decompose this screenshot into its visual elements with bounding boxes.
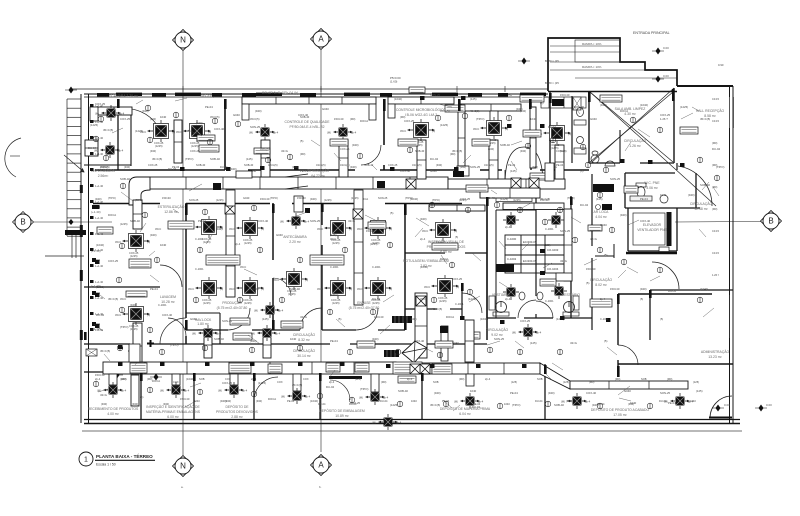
svg-text:COX-25: COX-25 [452,277,463,281]
svg-text:SOB-40: SOB-40 [398,389,408,393]
bottom partition x422 [421,372,423,419]
svg-text:43×G(5): 43×G(5) [340,163,350,167]
outlets left wall [92,205,100,209]
svg-text:(1225): (1225) [372,301,380,305]
bench row room6 [541,97,586,108]
level diamonds bottom right [712,405,724,412]
svg-text:C-1001: C-1001 [330,265,339,269]
door arc circ [652,262,679,289]
svg-text:(125): (125) [696,389,703,393]
svg-text:(M): (M) [359,396,363,400]
svg-text:0.00: 0.00 [724,403,730,407]
svg-text:45×C: 45×C [229,287,235,291]
equipment label boxes [97,87,698,383]
svg-text:2p-4: 2p-4 [420,237,426,241]
svg-text:SON-25: SON-25 [560,229,571,233]
duct transition lines [285,174,308,189]
svg-text:(M0): (M0) [459,377,464,381]
svg-text:SOB: SOB [433,380,439,384]
svg-text:(M0): (M0) [712,163,717,167]
label box c5000 [468,332,480,339]
leader lines [94,98,719,411]
svg-text:(M): (M) [281,395,285,399]
havlock room [186,312,220,314]
diffuser S12 [561,393,591,409]
svg-text:43×G: 43×G [570,341,577,345]
svg-text:COX: COX [173,380,179,384]
svg-text:(1225): (1225) [244,301,252,305]
svg-text:(M0): (M0) [350,117,355,121]
svg-text:2.88 m²: 2.88 m² [231,415,243,419]
svg-text:I B-06 h/G2-4G l-4/L2: I B-06 h/G2-4G l-4/L2 [405,113,438,117]
level diamonds corridorB [111,372,123,379]
svg-text:150×40: 150×40 [560,93,570,97]
duct envase vertical [354,210,363,305]
svg-text:45×C: 45×C [400,129,406,133]
entrance step tick [518,58,530,65]
register cross [147,340,154,347]
svg-text:0.00: 0.00 [663,46,669,50]
svg-text:SON-25: SON-25 [660,391,671,395]
diffuser S5 [280,213,310,229]
svg-text:RECEBIMENTO DE PRODUTOS: RECEBIMENTO DE PRODUTOS [88,407,139,411]
svg-text:(M0): (M0) [712,207,717,211]
svg-text:150×40: 150×40 [180,397,190,401]
svg-text:COX-40: COX-40 [162,313,173,317]
door arc corridor1 a [363,174,385,196]
svg-text:DU-04: DU-04 [597,402,605,406]
LAV box corridorA [233,333,252,340]
duct branch x470 [465,320,474,362]
toilet cluster mid (around 500-560, 290-312) [493,292,579,316]
bottom partition x194 [193,372,195,419]
svg-text:SON-25: SON-25 [610,177,621,181]
svg-text:43×G: 43×G [100,393,107,397]
svg-text:PE-04: PE-04 [640,197,648,201]
svg-text:45×C: 45×C [420,297,426,301]
svg-text:(TIPO): (TIPO) [135,198,143,202]
est door arc [160,318,186,344]
svg-text:C-1001: C-1001 [600,317,609,321]
svg-text:2p-4: 2p-4 [184,389,190,393]
duct drop CQ2 [339,140,348,177]
diffuser D18 [424,275,459,303]
svg-text:(1225): (1225) [244,241,252,245]
svg-text:SOB: SOB [641,377,647,381]
right column marks [712,97,719,277]
wall top-band x550 [549,91,551,163]
svg-text:(1225): (1225) [135,129,143,133]
svg-text:1+1.40: 1+1.40 [95,296,104,300]
svg-text:DOCA: DOCA [268,397,276,401]
svg-text:45×C: 45×C [317,287,323,291]
svg-text:(M): (M) [251,332,255,336]
diffuser S4 [94,142,124,158]
svg-text:6.90 m²: 6.90 m² [440,250,452,254]
svg-text:(1225): (1225) [324,198,332,202]
door marker box left [86,349,97,356]
est/lav divider wall [84,286,160,288]
svg-text:Escala 1 / 50: Escala 1 / 50 [96,463,116,467]
svg-text:(1225): (1225) [439,299,447,303]
register producao top [225,204,235,214]
section marker B right [675,221,762,224]
diffuser D7 [229,217,264,245]
svg-text:(M): (M) [160,389,164,393]
svg-text:(TIPO): (TIPO) [476,117,484,121]
svg-text:(5): (5) [604,339,607,343]
room5 drop duct [490,111,498,123]
duct drop room5 [489,140,498,179]
svg-text:64.72 m²: 64.72 m² [311,174,325,178]
duct stubs to bottom diffusers [109,374,117,385]
svg-text:1040: 1040 [208,287,215,291]
svg-text:G040: G040 [600,223,607,227]
svg-text:1040: 1040 [290,337,297,341]
svg-text:(M0): (M0) [450,152,455,156]
top eave line [71,88,548,90]
diffuser S8 [218,382,248,398]
svg-text:(1225): (1225) [203,240,211,244]
svg-text:45×C: 45×C [473,127,479,131]
svg-text:HALL RECEPÇÃO: HALL RECEPÇÃO [696,108,725,113]
svg-text:1+1.40: 1+1.40 [95,232,104,236]
svg-text:1.26 f: 1.26 f [712,273,719,277]
door arc bottom right corner [710,396,732,418]
svg-text:DU-04: DU-04 [349,402,357,406]
sala limpa X brace [590,88,716,206]
svg-text:1+1.40: 1+1.40 [95,328,104,332]
svg-text:1+1.40: 1+1.40 [95,136,104,140]
svg-text:(940): (940) [548,391,555,395]
svg-text:(940): (940) [230,167,237,171]
svg-text:1040: 1040 [504,402,510,406]
svg-text:DU-04: DU-04 [659,399,667,403]
svg-text:(M0): (M0) [589,380,594,384]
svg-text:(5): (5) [338,317,341,321]
svg-text:2p-4: 2p-4 [119,112,125,116]
svg-text:1+1.40: 1+1.40 [95,104,104,108]
room2 top duct [96,107,132,115]
svg-text:ANTECÂMARA: ANTECÂMARA [283,235,307,239]
svg-text:(5): (5) [586,281,589,285]
sala limpa south wall [589,162,620,164]
svg-text:3.06 m²: 3.06 m² [646,186,658,190]
svg-text:(125): (125) [563,380,569,384]
svg-text:DOCA: DOCA [620,109,628,113]
lab small dark rects [540,249,545,253]
bottom partition x320 [319,372,321,419]
svg-text:1040: 1040 [530,117,537,121]
svg-text:2p-4: 2p-4 [216,332,222,336]
svg-text:(940): (940) [150,233,157,237]
svg-text:PE-04: PE-04 [205,105,213,109]
dark rect near top wall [552,99,564,106]
tiny circle tags [93,105,720,409]
svg-text:SON-25: SON-25 [494,337,505,341]
envase east wall x405 [404,203,406,330]
svg-text:45×C(5): 45×C(5) [432,307,442,311]
elevator room [628,208,677,251]
svg-text:ENVASE: ENVASE [357,301,371,305]
top leader texts [390,59,724,121]
svg-text:(5): (5) [660,317,663,321]
svg-text:COX-40: COX-40 [586,391,597,395]
svg-text:(940): (940) [132,402,138,406]
diffuser D1 [140,120,175,148]
svg-text:(125): (125) [530,341,537,345]
svg-text:45×C: 45×C [422,229,428,233]
diffuser S9 [281,388,311,404]
svg-text:2p-4: 2p-4 [273,131,279,135]
svg-text:b.: b. [319,485,322,489]
svg-text:DOCA: DOCA [108,213,116,217]
svg-text:PLANTA BAIXA - TÉRREO: PLANTA BAIXA - TÉRREO [96,452,153,459]
svg-text:G040: G040 [590,117,597,121]
svg-text:G040: G040 [243,196,250,200]
svg-text:(TIPO): (TIPO) [405,196,413,200]
svg-text:(1225): (1225) [288,292,296,296]
svg-text:C-1002: C-1002 [507,257,517,261]
diffuser S16 [512,324,542,340]
section marker B left [30,221,112,223]
svg-text:C-1001: C-1001 [545,227,554,231]
svg-text:SOB-40: SOB-40 [244,163,254,167]
svg-text:(940): (940) [250,339,257,343]
svg-text:(M0): (M0) [667,377,672,381]
CQ room top duct [242,97,376,104]
svg-text:COX-25: COX-25 [190,149,200,153]
cluster diffusers [503,212,519,228]
svg-text:SOB-40: SOB-40 [554,403,564,407]
wall top-band x530 [530,99,532,170]
svg-text:COX-25: COX-25 [340,147,350,151]
ground separator line [82,430,742,432]
svg-text:(1225): (1225) [370,242,378,246]
svg-text:(M): (M) [192,332,196,336]
svg-text:(940): (940) [150,149,156,153]
svg-text:(125): (125) [693,380,699,384]
svg-text:(TIPO): (TIPO) [512,403,520,407]
svg-text:C0.15: C0.15 [712,251,719,255]
svg-text:(TIPO): (TIPO) [270,196,278,200]
duct elbow left (turns south) [129,177,150,205]
svg-text:(125): (125) [510,169,517,173]
wall top-band x131 [130,108,132,166]
svg-text:(1225): (1225) [258,381,266,385]
svg-text:(M): (M) [249,131,253,135]
diffuser D9 [229,277,264,305]
svg-text:1+1.40: 1+1.40 [95,248,104,252]
svg-text:COX-25: COX-25 [520,319,531,323]
svg-text:N: N [180,462,186,471]
double door arch corridor1 [505,147,543,185]
door arc x462 [462,293,482,313]
door arc admin [652,262,679,290]
elevator shaft dark bar [667,212,672,246]
svg-text:DOCA: DOCA [668,289,676,293]
diffuser D2 [176,120,211,148]
level diamond entrance 1 [652,48,664,55]
svg-text:(M0): (M0) [121,377,126,381]
svg-text:1040: 1040 [660,193,667,197]
duct cluster right of corridor [480,188,540,198]
svg-text:SOB-40: SOB-40 [130,219,140,223]
svg-text:EC/200-05: EC/200-05 [523,259,537,263]
svg-text:45×C: 45×C [115,313,121,317]
svg-text:(1225): (1225) [680,105,688,109]
svg-text:2p-4: 2p-4 [505,225,511,229]
section line N [182,51,184,455]
svg-text:C-1001: C-1001 [195,237,204,241]
big duct 45 elbow [402,341,427,363]
svg-text:ESTERILIZAÇÃO: ESTERILIZAÇÃO [158,204,185,209]
svg-text:DU-04: DU-04 [712,147,721,151]
svg-text:2p-4: 2p-4 [275,332,281,336]
svg-text:150×40: 150×40 [260,197,270,201]
svg-text:(125): (125) [262,317,269,321]
svg-text:B: B [20,218,25,227]
svg-text:COX-40: COX-40 [640,219,651,223]
svg-text:MATÉRIA-PRIMA E EMBALAGENS: MATÉRIA-PRIMA E EMBALAGENS [146,409,201,414]
svg-text:1+1.40: 1+1.40 [95,216,104,220]
svg-text:(940): (940) [566,399,572,403]
svg-text:DU-04: DU-04 [580,203,589,207]
diffuser D6 [188,216,223,244]
below stairs landing [45,235,84,258]
svg-text:G040: G040 [322,107,329,111]
svg-text:6.00 m²: 6.00 m² [167,415,179,419]
svg-text:CIRCULAÇÃO: CIRCULAÇÃO [486,327,509,332]
svg-text:(1225): (1225) [96,285,104,289]
svg-text:DU-04: DU-04 [535,399,543,403]
wall x462 [461,283,463,318]
svg-text:0.90: 0.90 [718,63,724,67]
svg-text:1+1.40: 1+1.40 [95,184,104,188]
svg-text:45×C: 45×C [317,227,323,231]
svg-text:RAMPA i: 10%: RAMPA i: 10% [582,65,602,69]
section marker N bottom [173,456,194,477]
top-right wall [677,85,733,87]
svg-text:COX: COX [225,377,231,381]
svg-text:1+1.40: 1+1.40 [95,280,104,284]
rotulagem east wall x487 [486,196,488,340]
svg-text:2p-4: 2p-4 [407,377,413,381]
svg-text:(940): (940) [130,303,137,307]
svg-text:2p-4: 2p-4 [383,396,389,400]
svg-text:PE-04: PE-04 [548,125,556,129]
svg-text:8.02 m²: 8.02 m² [595,283,607,287]
devolvidos door arc [254,377,278,400]
svg-text:(125): (125) [355,377,361,381]
svg-text:PE-04: PE-04 [150,287,158,291]
svg-text:2p-4: 2p-4 [329,380,335,384]
svg-text:2p-4: 2p-4 [235,242,241,246]
svg-text:(1040): (1040) [420,265,428,269]
svg-text:COX-25: COX-25 [120,117,131,121]
svg-text:(940): (940) [124,165,130,169]
svg-text:PE-04: PE-04 [442,399,450,403]
svg-text:SON-25: SON-25 [250,125,261,129]
dark wall stubs [84,89,675,381]
tiny annotation texts [88,93,724,409]
svg-text:1040: 1040 [411,399,417,403]
diffuser D12 [317,277,352,305]
svg-text:45×C(5): 45×C(5) [470,109,480,113]
svg-text:45×C: 45×C [357,227,363,231]
svg-text:(M): (M) [254,309,258,313]
main corridor duct [148,177,448,189]
svg-text:(1225): (1225) [130,254,138,258]
svg-text:(940): (940) [101,402,107,406]
inspecao top duct [429,205,485,211]
wall x650 [649,290,651,340]
duct big center drop [415,293,427,358]
svg-text:45×C: 45×C [357,287,363,291]
svg-text:G040: G040 [190,317,197,321]
svg-text:CIRCULAÇÃO: CIRCULAÇÃO [307,168,330,173]
door arc prod-ante [273,278,291,296]
vestiario south wall y318 [487,317,592,319]
svg-text:PF/50-04/LE-4 h/5L-R2: PF/50-04/LE-4 h/5L-R2 [289,125,324,129]
svg-text:ENTRADA PRINCIPAL: ENTRADA PRINCIPAL [633,31,670,35]
bottom rooms north wall y372 [84,371,545,373]
svg-text:2p-4: 2p-4 [95,377,101,381]
top wall with windows [84,93,548,97]
svg-text:150×40: 150×40 [366,229,376,233]
cluster duct horizontal [503,203,564,210]
inspecao/rotulagem divider y253 [405,252,445,254]
svg-text:(940): (940) [163,402,169,406]
svg-text:DEPÓSITO DE PRODUTO ACABADO: DEPÓSITO DE PRODUTO ACABADO [591,407,650,412]
svg-text:150×40: 150×40 [95,373,105,377]
lab benches [505,235,566,273]
mid rooms extra clutter [120,222,663,321]
lab dark label [496,264,514,272]
svg-text:SON-25: SON-25 [222,319,233,323]
diffuser D14 [273,268,308,296]
svg-text:(M): (M) [327,131,331,135]
svg-text:(1.60): (1.60) [390,80,397,84]
svg-text:CO-AR 6×G-4/Eh-04 (h): CO-AR 6×G-4/Eh-04 (h) [262,91,298,95]
svg-text:(940): (940) [640,287,647,291]
est/lav door arc [160,265,182,287]
svg-text:2p-4: 2p-4 [242,389,248,393]
svg-text:2p-4: 2p-4 [600,297,606,301]
svg-text:(TIPO): (TIPO) [108,196,116,200]
svg-text:(940): (940) [256,399,262,403]
diffuser D8 [188,277,223,305]
room5 duct elbow bottom [457,166,469,176]
svg-text:45×C(5): 45×C(5) [210,115,220,119]
small dark squares scattered [95,96,685,368]
svg-text:DOCA: DOCA [446,315,454,319]
duct near etiq [545,163,554,181]
svg-text:(M): (M) [218,389,222,393]
svg-text:(1040): (1040) [640,103,648,107]
diffuser D10 [317,217,352,245]
svg-text:(5): (5) [640,297,643,301]
svg-text:(M): (M) [454,400,458,404]
svg-text:45×C(5): 45×C(5) [292,383,302,387]
svg-text:DEPÓSITO DE: DEPÓSITO DE [225,404,249,409]
svg-text:CIRCULAÇÃO: CIRCULAÇÃO [293,348,316,353]
entrance canopy walls [548,38,677,91]
wc pne fixtures [630,183,668,203]
svg-text:PE-04: PE-04 [510,391,518,395]
svg-text:(M): (M) [95,112,99,116]
svg-text:2p-4: 2p-4 [585,400,591,404]
